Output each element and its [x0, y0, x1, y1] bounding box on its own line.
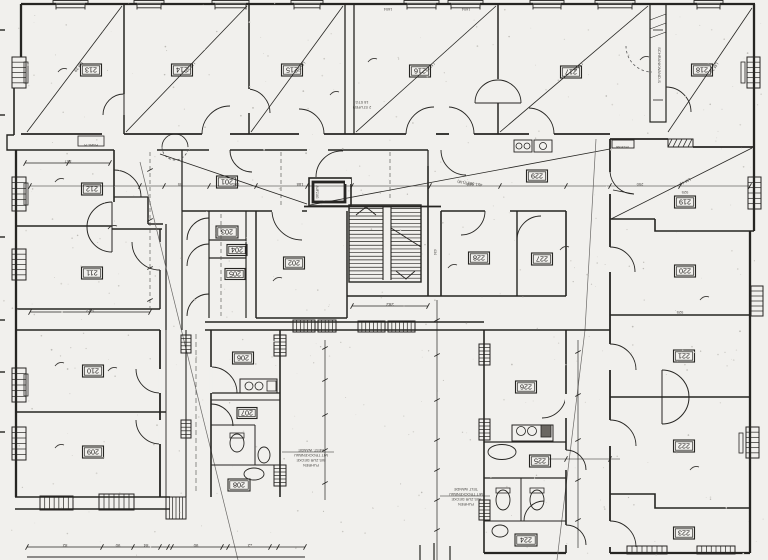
door 224 corridor [566, 525, 586, 545]
label room 223 [674, 527, 695, 539]
label room 216 [410, 65, 431, 77]
radiator right r3 [751, 286, 763, 316]
wall corridor west arm [181, 211, 183, 330]
wall bottom of top rooms b [124, 133, 202, 135]
svg-text:608: 608 [466, 182, 473, 187]
svg-text:223: 223 [678, 529, 690, 538]
elevator shaft [309, 178, 351, 206]
svg-text:MIT TROCKENBAU: MIT TROCKENBAU [449, 492, 483, 496]
sight line east [310, 149, 610, 205]
dim left corridor v [147, 152, 153, 308]
door room 201b [230, 150, 252, 172]
svg-text:228: 228 [473, 254, 485, 263]
wall lightwell west [185, 330, 187, 497]
wall outer right upper [753, 4, 755, 231]
svg-text:PAWL R: PAWL R [84, 143, 98, 147]
wall outer left jog [7, 135, 16, 150]
window courtyard cw1 [293, 320, 315, 332]
svg-text:90: 90 [115, 543, 120, 548]
svg-text:AUFZUG: AUFZUG [315, 185, 319, 199]
wall 210 top [16, 329, 160, 331]
wall 215-216 b [353, 4, 355, 134]
door 221 [610, 344, 636, 370]
door room 228 [461, 211, 485, 235]
wall 219 top right [693, 146, 754, 148]
wall courtyard band bot [205, 329, 484, 331]
label room 206 [233, 352, 254, 364]
wall 208 top [211, 464, 280, 466]
wall bath west [483, 330, 485, 553]
tub 225 [488, 445, 516, 460]
radiator left r5 [12, 427, 26, 460]
wall stub bottom center [420, 543, 450, 560]
wall 224 top [484, 520, 566, 522]
svg-text:84: 84 [143, 543, 148, 548]
svg-text:224: 224 [520, 536, 532, 545]
svg-text:18 STG: 18 STG [355, 100, 368, 104]
dim 807 left [24, 159, 112, 166]
window w2 [134, 1, 164, 10]
svg-text:209: 209 [87, 448, 99, 457]
svg-text:218: 218 [696, 66, 708, 75]
fold line left [140, 162, 238, 560]
wall 220 bottom [610, 314, 750, 316]
window w4 [291, 1, 323, 10]
svg-text:229: 229 [531, 172, 543, 181]
door room 217 corridor [529, 108, 554, 134]
wall 207 bath [211, 425, 255, 465]
door room 205 [187, 294, 209, 316]
wall 202 bottom [256, 317, 347, 319]
diagonal room 218 [668, 8, 752, 132]
window lightwell 2 [181, 420, 191, 438]
label room 226 [516, 381, 537, 393]
door room 218 [666, 87, 691, 112]
svg-text:900: 900 [232, 182, 239, 187]
svg-text:214: 214 [176, 66, 188, 75]
text 1604 b [462, 7, 470, 11]
dim 434 shaft [433, 249, 437, 255]
svg-text:TELT WANDE: TELT WANDE [454, 487, 478, 491]
svg-text:82: 82 [62, 543, 67, 548]
label room 201 [217, 176, 238, 188]
label room 214 [172, 64, 193, 76]
svg-text:226: 226 [520, 383, 532, 392]
dim 925 b [676, 310, 683, 315]
window bottom right w2 [697, 546, 735, 554]
dim dashed lightwell [195, 334, 197, 494]
wall 205 cell [209, 211, 246, 318]
label room 222 [674, 440, 695, 452]
door 222 [610, 420, 636, 446]
wall 203 cell [209, 211, 246, 240]
svg-text:222: 222 [678, 442, 690, 451]
door room 216 a [406, 107, 434, 134]
door room 213 [103, 94, 124, 115]
wall 219 bottom b [655, 219, 754, 231]
svg-text:225: 225 [534, 457, 546, 466]
door 219 [610, 172, 634, 194]
staircase [349, 205, 421, 282]
wall unit east [279, 330, 281, 497]
diagonal room 217 [500, 6, 648, 132]
window w8 [595, 1, 635, 10]
sink 224 [492, 525, 508, 537]
wall 212-211 [16, 225, 112, 227]
window w3 [212, 1, 249, 10]
diagonal room 219 [611, 148, 752, 219]
wall 212 top [16, 149, 182, 151]
window lightwell 1 [181, 335, 191, 353]
wall outer left top [20, 4, 22, 57]
wall right wing west [609, 139, 611, 553]
wall 216-217 [497, 4, 499, 134]
wall 227 east [565, 211, 567, 296]
door 220 [610, 247, 635, 272]
radiator right r1 [741, 57, 760, 88]
label room 208 [228, 479, 250, 491]
label room 204 [227, 245, 247, 256]
wc 224a [496, 488, 510, 510]
door dashed 218 [626, 46, 652, 72]
wall outer right lower [749, 231, 751, 553]
svg-text:220: 220 [679, 267, 691, 276]
label room 220 [675, 265, 696, 277]
dim dashed cells [220, 214, 222, 316]
wall 202 west [255, 211, 257, 318]
tub 208 [244, 468, 264, 480]
svg-text:221: 221 [678, 352, 690, 361]
svg-text:90: 90 [193, 543, 198, 548]
dim 542 band [29, 308, 152, 315]
diagonal room 215 [251, 6, 343, 132]
wall outer bottom right wing [610, 552, 750, 554]
door room 204 [187, 244, 209, 266]
fold line right [557, 139, 596, 560]
svg-text:201: 201 [221, 178, 233, 187]
svg-text:925: 925 [676, 310, 683, 315]
svg-text:217: 217 [565, 68, 577, 77]
radiator left r4 [12, 368, 28, 402]
wc 207 [230, 433, 244, 452]
wall outer left lower [15, 150, 17, 497]
door room 203 [187, 218, 209, 240]
dim 282 line [351, 302, 430, 309]
exterior stair left wing [166, 497, 186, 519]
radiator left r2 [12, 177, 28, 211]
label room 219 [675, 190, 696, 208]
svg-text:204: 204 [231, 246, 243, 255]
wall outer bottom bath column [484, 552, 566, 554]
wall 219 bottom a [610, 218, 655, 220]
wall bottom of top rooms g [554, 133, 610, 135]
label room 218 [692, 64, 713, 76]
svg-text:206: 206 [237, 354, 249, 363]
svg-text:282: 282 [386, 302, 394, 307]
door room 209 [136, 420, 160, 444]
wall unit west [210, 330, 212, 497]
wall y211 a [182, 210, 307, 212]
door room 226 [542, 394, 566, 418]
svg-text:215: 215 [286, 66, 298, 75]
svg-text:211: 211 [86, 269, 97, 278]
wall left wing east [159, 330, 161, 497]
wall 228 west [440, 211, 442, 296]
label room 205 [225, 269, 245, 280]
svg-text:227: 227 [536, 255, 548, 264]
svg-text:205: 205 [229, 270, 241, 279]
svg-text:BIS ZUR DECKE: BIS ZUR DECKE [296, 458, 326, 462]
window courtyard cw2 [318, 320, 336, 332]
svg-text:203: 203 [221, 228, 233, 237]
wall left wing east b [165, 330, 167, 497]
wall 202 east [346, 211, 348, 318]
label pawl box [78, 136, 104, 147]
wall outer top [21, 3, 755, 5]
svg-text:208: 208 [233, 481, 245, 490]
kitchen fixtures 217 [514, 140, 552, 152]
radiator right r4 [739, 427, 759, 458]
label room 211 [82, 267, 103, 279]
svg-text:1604: 1604 [462, 7, 470, 11]
svg-text:SCHRANKWAND-S: SCHRANKWAND-S [657, 47, 662, 83]
label room 217 [561, 66, 582, 78]
svg-text:213: 213 [85, 66, 97, 75]
door 223 [610, 521, 636, 547]
vestibule 216 door [428, 150, 466, 175]
svg-text:434: 434 [433, 249, 437, 255]
radiator right r2 [748, 177, 761, 209]
door room 207 [211, 404, 233, 426]
svg-text:216: 216 [414, 67, 426, 76]
door arc 221-222 [662, 370, 689, 424]
kitchen 226 [512, 425, 553, 441]
wall 221 bottom [610, 396, 750, 398]
diagonal room 213 [27, 6, 122, 132]
door room 214 corridor [202, 106, 230, 134]
wall 225 top [484, 441, 566, 443]
wall 210-209 [16, 411, 166, 413]
svg-text:202: 202 [288, 259, 300, 268]
door room 211 [132, 242, 160, 270]
wall bottom of top rooms f [474, 133, 529, 135]
svg-text:BIS ZUR DECKE: BIS ZUR DECKE [451, 497, 481, 501]
wc 224b [530, 488, 544, 510]
wall 227 west [516, 211, 518, 296]
window courtyard cw3 [358, 321, 385, 332]
door room 206 [211, 367, 237, 393]
label room 225 [530, 455, 551, 467]
sight line west [160, 154, 307, 204]
door dashed corridor w [162, 134, 188, 160]
dim line courtyard right [434, 300, 490, 560]
svg-text:807: 807 [64, 159, 71, 164]
wall 228-227 bottom [347, 295, 566, 297]
svg-text:BEST. WANDE: BEST. WANDE [298, 448, 324, 452]
kitchen 206 [240, 379, 277, 393]
svg-text:210: 210 [87, 367, 99, 376]
wall 228 top [441, 210, 566, 212]
hatch wall 219 [668, 139, 693, 147]
svg-text:MIT TROCKENBAU: MIT TROCKENBAU [294, 453, 328, 457]
window bottom left w2 [99, 494, 134, 510]
wall left wing bottom a [15, 496, 170, 498]
svg-text:925: 925 [681, 190, 688, 195]
dimension line bottom [26, 543, 307, 550]
svg-text:207: 207 [241, 409, 253, 418]
window w1 [53, 1, 88, 10]
door room 202 [272, 211, 302, 240]
wall 214-215 [248, 4, 250, 134]
wall outer left mid [13, 88, 15, 135]
edge ticks left [0, 30, 5, 432]
svg-text:FUHREN: FUHREN [458, 502, 474, 506]
diagonal room 216 [356, 6, 496, 132]
wall 222 bottom jog [610, 494, 750, 508]
window bath w3 [479, 500, 490, 520]
wall bath east [565, 330, 567, 553]
svg-text:542: 542 [86, 308, 94, 313]
label room 210 [83, 365, 104, 377]
wall 215-216 a [344, 4, 346, 134]
label room 212 [82, 183, 103, 195]
box telesb [612, 140, 634, 149]
wall bottom of top rooms c [230, 133, 299, 135]
diagonal room 214 [126, 6, 247, 132]
svg-text:FUHREN: FUHREN [303, 463, 319, 467]
wall corridor south mid [328, 149, 428, 151]
niche 212 [114, 170, 163, 224]
door double 216-217 [475, 80, 521, 103]
wall bottom of top rooms left [21, 133, 102, 135]
label room 227 [532, 253, 553, 265]
wall 204 cell [209, 240, 246, 258]
window unit e1 [274, 335, 286, 356]
wall bottom of top rooms d [324, 133, 406, 135]
window bath w1 [479, 344, 490, 365]
label room 209 [83, 446, 104, 458]
wall 225 bottom [484, 477, 566, 479]
window bottom left w1 [40, 496, 73, 510]
door lens 212-211 [87, 202, 112, 252]
window courtyard cw4 [388, 321, 415, 332]
svg-text:219: 219 [679, 198, 691, 207]
label room 203 [216, 226, 238, 238]
wall 211 bottom [16, 308, 160, 310]
door room 227 [517, 216, 541, 240]
label room 229 [527, 170, 548, 182]
window w6 [448, 1, 483, 10]
svg-text:95: 95 [177, 182, 182, 187]
svg-text:250: 250 [636, 182, 643, 187]
window bath w2 [479, 419, 490, 440]
wall 219 top left [610, 138, 668, 140]
label room 221 [674, 350, 695, 362]
door elevator hall [316, 151, 343, 177]
window w5 [404, 1, 439, 10]
label room 202 [284, 257, 305, 269]
dim line right corridor [549, 456, 620, 462]
window unit e2 [274, 465, 286, 486]
door room 215 corridor [299, 109, 324, 134]
ground line bottom [27, 556, 305, 558]
wall left wing bottom b [15, 508, 170, 510]
wall bath top [484, 329, 610, 331]
wall 201 north [182, 150, 307, 211]
radiator left r3 [12, 249, 26, 280]
svg-text:TELESB: TELESB [616, 145, 630, 149]
svg-text:2 STUFEN: 2 STUFEN [353, 105, 372, 109]
wall 213-214 [123, 4, 125, 134]
wall 211 north [112, 228, 162, 230]
label room 228 [469, 252, 490, 264]
dim right corridor v [575, 340, 581, 548]
door wc cells [524, 501, 544, 521]
wall 207 top [211, 399, 280, 401]
sink 207 [258, 447, 270, 463]
wall under elevator [304, 206, 441, 208]
door room 216 b [449, 107, 474, 134]
svg-text:1604: 1604 [384, 7, 392, 11]
text 1604 a [384, 7, 392, 11]
dim marks corridor v [281, 152, 390, 205]
label room 224 [515, 534, 537, 546]
corridor dim line [29, 183, 752, 189]
corridor dim numbers [177, 182, 643, 187]
wall bottom of top rooms e [436, 133, 449, 135]
label room 213 [81, 64, 102, 76]
door 225 corridor [566, 450, 586, 470]
window bottom right w1 [627, 546, 667, 554]
svg-text:188: 188 [296, 182, 303, 187]
wall 212 east [113, 150, 115, 202]
label room 215 [282, 64, 303, 76]
scan check marks [55, 56, 709, 470]
wc cell wall [520, 478, 522, 521]
window w7 [530, 1, 564, 10]
radiator left r1 [12, 57, 28, 88]
text stufen [353, 100, 372, 109]
dim line courtyard left [282, 340, 334, 500]
window w9 [694, 1, 723, 10]
door room 215 left [249, 89, 270, 113]
wall 217-218 shaft [650, 4, 666, 122]
wall corridor left [165, 224, 167, 330]
door room 210 [136, 369, 160, 393]
label room 207 [237, 408, 257, 419]
wall courtyard band top [205, 321, 484, 323]
wall stair east [427, 166, 429, 296]
wall 211 east [159, 229, 161, 309]
wall 206 bottom [211, 392, 280, 394]
